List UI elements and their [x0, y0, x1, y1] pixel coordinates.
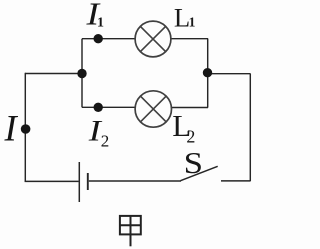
wire battery to switch: [89, 180, 181, 182]
svg-text:1: 1: [189, 14, 196, 29]
lamp L1: [135, 21, 171, 57]
wire bottom left horizontal: [25, 180, 79, 182]
switch S right contact wire: [221, 180, 250, 182]
battery long plate: [78, 162, 80, 202]
svg-text:2: 2: [101, 131, 110, 150]
label L1: [174, 2, 196, 32]
label jia (Chinese character drawn with strokes): [120, 216, 141, 246]
wire parallel-section left vertical: [81, 39, 83, 108]
label L2: [172, 108, 195, 147]
wire bottom branch right: [172, 107, 209, 109]
battery short plate: [87, 173, 89, 190]
label I1: [85, 0, 104, 32]
wire top branch right: [171, 38, 208, 40]
wire left main vertical: [24, 73, 26, 182]
svg-text:I: I: [4, 108, 19, 149]
svg-text:S: S: [184, 145, 203, 180]
wire parallel-section right vertical: [207, 39, 209, 108]
label I2: [88, 115, 110, 151]
wire top branch left: [82, 38, 135, 40]
svg-text:1: 1: [97, 15, 104, 30]
wire bottom branch left: [82, 106, 135, 108]
wire right vertical: [249, 74, 251, 181]
node dot top branch: [94, 34, 103, 43]
switch S lever: [181, 166, 218, 180]
wire left feed horizontal: [25, 73, 82, 75]
node dot right junction: [203, 68, 212, 77]
node dot left main current: [21, 124, 31, 134]
lamp L2: [135, 91, 171, 127]
node dot bottom branch: [94, 103, 103, 112]
node dot left junction: [77, 69, 86, 78]
svg-text:2: 2: [186, 126, 195, 146]
wire right feed horizontal: [208, 73, 251, 75]
